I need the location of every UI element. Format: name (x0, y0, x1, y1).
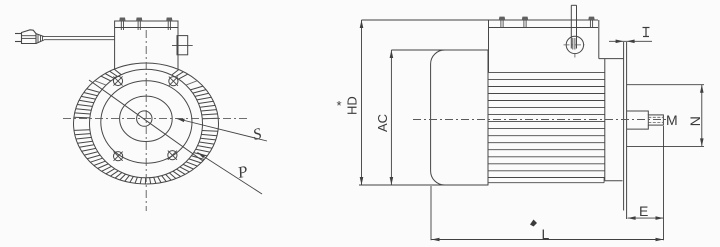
plug body (22, 30, 37, 44)
AC top extension (391, 49, 444, 51)
dimension AC line (390, 50, 392, 185)
flange circle (101, 81, 192, 163)
E right extension / shaft end extension (663, 126, 665, 240)
frame bottom foot line (488, 182, 604, 184)
svg-text:L: L (542, 226, 550, 242)
end bracket bottom (605, 180, 623, 182)
leader line P with arrow (197, 152, 262, 194)
cable gland on box (177, 36, 188, 55)
motor frame ribs (488, 72, 605, 177)
cooling fins (radial hatch) (74, 69, 218, 184)
bolt holes with cross marks (113, 76, 122, 85)
N bottom extension (627, 145, 704, 147)
HD/AC bottom extension (359, 184, 488, 186)
terminal box screws (side view) (499, 17, 505, 28)
horizontal centreline (front view) (63, 118, 247, 120)
lifting eye circle (566, 36, 583, 53)
dimension L line (432, 239, 664, 241)
svg-text:S: S (251, 125, 263, 143)
end bracket ledge (599, 58, 624, 60)
L left extension (430, 186, 432, 240)
fan cover (side view) (431, 50, 489, 185)
lifting eye bolt pin (570, 5, 572, 48)
asterisk for L (530, 220, 537, 227)
terminal box lid screws (119, 18, 125, 31)
fin gap marks at 45 deg (186, 81, 197, 85)
spigot circle (120, 96, 173, 141)
leader line S with arrow (177, 119, 268, 142)
svg-text:AC: AC (375, 114, 390, 132)
vertical centreline (front view) (145, 30, 147, 211)
flange plate (623, 42, 625, 211)
svg-text:*: * (337, 98, 342, 113)
dimension E line (628, 217, 664, 219)
shaft end (648, 115, 663, 125)
shaft hole (137, 111, 152, 126)
dimension N line (701, 85, 703, 147)
label I (643, 27, 650, 29)
terminal box lid joint (115, 27, 178, 29)
plug strain relief (36, 34, 44, 44)
HD top extension (362, 19, 490, 21)
shaft centreline (413, 119, 669, 121)
svg-text:M: M (666, 112, 678, 128)
terminal box (front view) (115, 21, 178, 69)
dimension HD line (361, 20, 363, 185)
svg-text:P: P (235, 163, 249, 182)
dimension I line (609, 40, 652, 42)
terminal box (side view) (488, 20, 490, 72)
end bracket left edge (604, 59, 606, 181)
svg-text:HD: HD (345, 96, 360, 115)
N top extension (627, 84, 704, 86)
cooling fin ring inner circle (90, 69, 203, 178)
motor body outer rim (front view) (74, 63, 219, 184)
power cable (44, 35, 115, 37)
shaft step (627, 111, 649, 129)
svg-text:N: N (687, 116, 703, 126)
cover/body joint (487, 50, 489, 185)
plug prongs (15, 33, 22, 35)
svg-text:E: E (639, 203, 648, 219)
diagonal section line through centre (89, 80, 203, 161)
